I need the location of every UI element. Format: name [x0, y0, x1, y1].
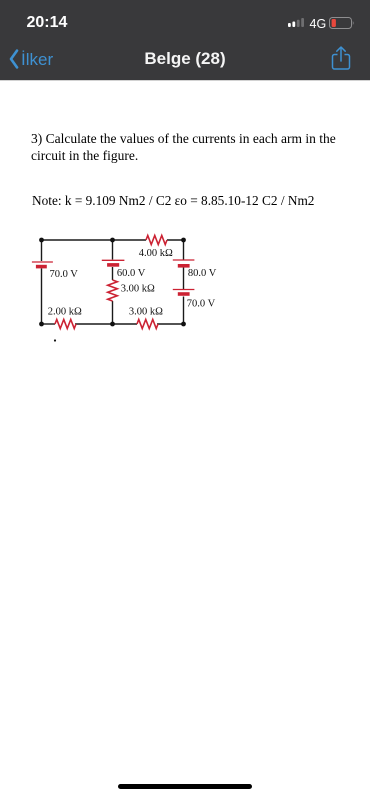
svg-text:2.00 kΩ: 2.00 kΩ — [48, 307, 82, 318]
svg-text:3.00 kΩ: 3.00 kΩ — [129, 307, 163, 318]
svg-text:3.00 kΩ: 3.00 kΩ — [121, 284, 155, 295]
svg-text:60.0 V: 60.0 V — [117, 268, 146, 279]
svg-text:70.0 V: 70.0 V — [50, 269, 79, 280]
svg-text:70.0 V: 70.0 V — [187, 298, 216, 309]
svg-text:80.0 V: 80.0 V — [188, 268, 217, 279]
svg-text:4.00 kΩ: 4.00 kΩ — [139, 248, 173, 259]
